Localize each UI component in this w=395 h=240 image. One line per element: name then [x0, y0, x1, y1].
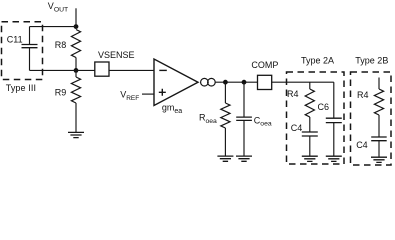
wire output to COMP box [215, 81, 257, 83]
ground below C6 [326, 156, 342, 161]
svg-text:Type 2A: Type 2A [301, 55, 334, 65]
node VSENSE junction dot [74, 68, 79, 73]
Type 2A dashed box [287, 72, 345, 164]
ground below R9 [68, 132, 84, 137]
ground below C4 (Type 2A) [302, 156, 318, 161]
op-amp U1 gm_ea triangle [154, 59, 198, 106]
ground below C4 (Type 2B) [371, 157, 387, 162]
svg-text:Type 2B: Type 2B [355, 55, 388, 65]
svg-text:VSENSE: VSENSE [98, 50, 135, 60]
wire VOUT vertical to node [75, 8, 77, 26]
capacitor C4 (Type 2A) [302, 132, 318, 136]
VSENSE pin box [95, 62, 109, 76]
resistor R4 (Type 2A) [309, 82, 311, 89]
svg-text:VOUT: VOUT [48, 1, 68, 13]
op-amp output current-source circles [201, 78, 209, 86]
capacitor Coea [243, 82, 245, 117]
resistor R9 [75, 70, 77, 77]
wire R8 to VSENSE node [75, 58, 77, 71]
svg-text:R4: R4 [357, 90, 369, 100]
wire R4 to C4 (Type 2A) [309, 117, 311, 132]
svg-text:Type III: Type III [6, 83, 36, 93]
Type 2B dashed box [351, 72, 392, 165]
wire node to VSENSE box [76, 69, 95, 71]
wire VREF to op-amp non-inverting input [142, 93, 154, 95]
svg-text:C4: C4 [356, 140, 368, 150]
resistor R4 (Type 2B) [378, 78, 380, 90]
wire COMP box into Type 2A [272, 81, 334, 83]
COMP pin box [258, 75, 272, 89]
svg-text:COMP: COMP [251, 60, 278, 70]
svg-text:VREF: VREF [120, 90, 139, 102]
op-amp minus sign [159, 69, 167, 71]
node Roea junction dot [223, 80, 228, 85]
svg-text:C6: C6 [318, 102, 330, 112]
Type III dashed box [2, 22, 43, 80]
svg-text:R4: R4 [287, 89, 299, 99]
node Coea junction dot [242, 80, 247, 85]
op-amp plus sign [159, 89, 166, 96]
node VOUT junction dot [74, 24, 79, 29]
svg-text:Coea: Coea [254, 115, 272, 127]
resistor Roea [224, 82, 226, 103]
capacitor C4 (Type 2B) [371, 137, 387, 141]
svg-text:Roea: Roea [199, 113, 217, 125]
ground below Roea [217, 156, 233, 161]
svg-text:gmea: gmea [162, 103, 182, 115]
svg-text:C11: C11 [7, 35, 23, 45]
svg-text:R8: R8 [55, 40, 67, 50]
wire C11 bottom return [30, 48, 77, 71]
wire R4 to C4 (Type 2B) [378, 115, 380, 137]
capacitor C11 top wire [30, 26, 77, 28]
svg-text:R9: R9 [55, 87, 67, 97]
capacitor C11 [22, 45, 38, 48]
svg-text:C4: C4 [291, 123, 303, 133]
ground below Coea [236, 156, 252, 161]
wire VSENSE box to op-amp inverting input [109, 69, 154, 71]
resistor R8 [71, 30, 80, 58]
capacitor C6 branch (Type 2A) [333, 82, 335, 118]
wire R9 to ground [75, 103, 77, 132]
